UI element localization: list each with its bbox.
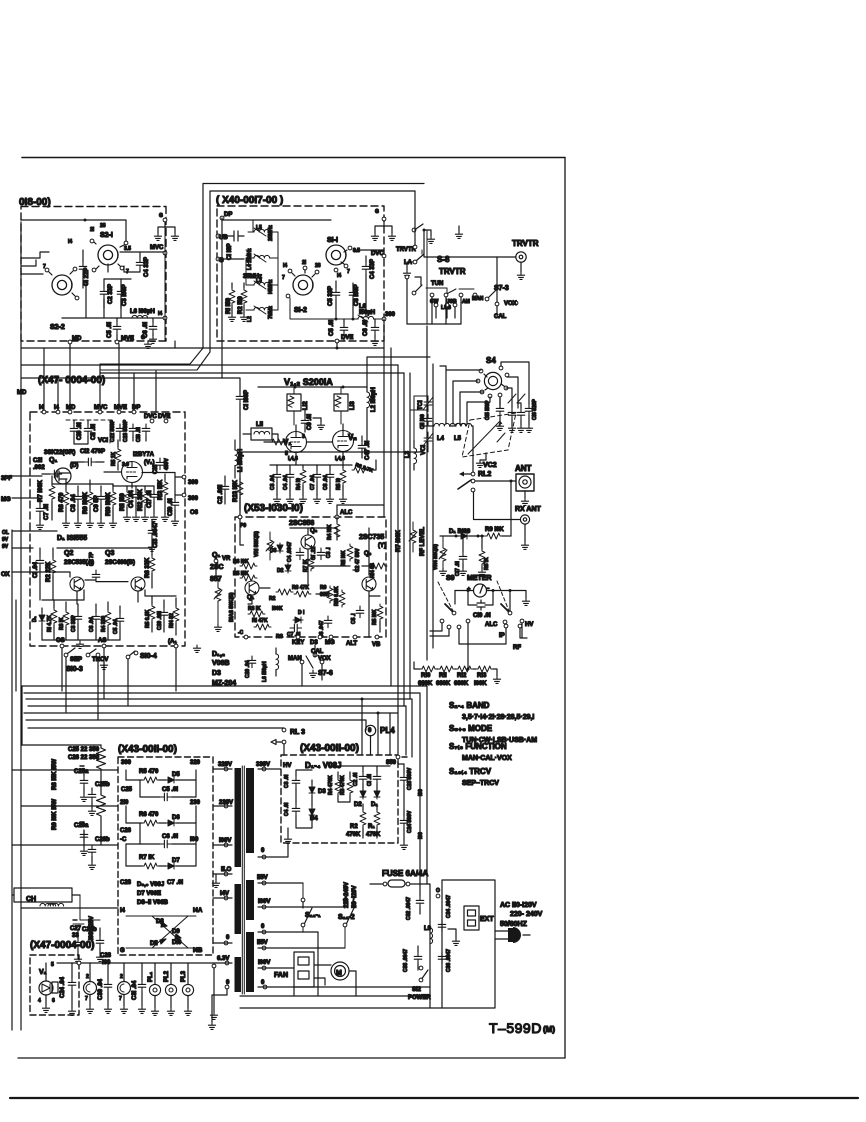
capacitor C7 .01 <box>36 504 44 516</box>
svg-text:SEP: SEP <box>70 657 82 663</box>
svg-text:CI7 .0I: CI7 .0I <box>147 490 153 508</box>
svg-text:D4: D4 <box>310 816 318 822</box>
resistor R1 4.7K <box>51 608 57 625</box>
wire mode bus <box>407 279 461 324</box>
wires X53 internal <box>240 517 380 637</box>
wire tank down to relay <box>472 426 473 472</box>
svg-text:C7 .0I: C7 .0I <box>167 880 183 886</box>
capacitor C3 150P <box>117 287 125 299</box>
svg-text:D₁,₂: D₁,₂ <box>212 651 225 658</box>
ground S-8 second pole <box>458 226 460 231</box>
svg-text:L2 I50µH: L2 I50µH <box>371 387 377 412</box>
svg-text:R5 6.8K: R5 6.8K <box>145 609 151 628</box>
capacitor C1 22P <box>79 262 87 274</box>
resistor R8 470 <box>63 490 69 507</box>
svg-text:0: 0 <box>226 935 230 941</box>
svg-text:I00V: I00V <box>258 960 270 966</box>
svg-text:C2I: C2I <box>33 458 43 464</box>
svg-text:TRVTR: TRVTR <box>439 267 466 276</box>
svg-text:C7 .04: C7 .04 <box>310 475 316 490</box>
wire DP rail <box>222 218 331 378</box>
svg-text:C5 .0I: C5 .0I <box>162 787 178 793</box>
tap 0 line <box>212 964 216 968</box>
svg-text:2I: 2I <box>90 227 95 233</box>
wire G branches <box>158 222 175 233</box>
svg-text:-C: -C <box>238 630 244 636</box>
resistor R9 100K <box>87 490 93 507</box>
svg-text:R8 470: R8 470 <box>59 492 65 512</box>
svg-text:MG: MG <box>1 497 11 503</box>
svg-text:2SC460(B): 2SC460(B) <box>105 560 135 566</box>
svg-text:D2: D2 <box>277 568 284 574</box>
svg-text:C36 .0047: C36 .0047 <box>446 949 452 972</box>
bus drops to psu box <box>362 699 390 755</box>
wire band mid 4 <box>21 378 240 392</box>
fan box <box>294 952 314 987</box>
svg-text:SI-I: SI-I <box>327 237 338 244</box>
svg-text:7: 7 <box>43 264 46 270</box>
svg-text:Q3: Q3 <box>105 550 114 557</box>
wire TC1 riser <box>410 396 428 452</box>
svg-text:0: 0 <box>368 728 372 734</box>
risers long verticals <box>384 319 433 757</box>
svg-text:SI0-3: SI0-3 <box>66 666 83 673</box>
svg-text:I50µH: I50µH <box>359 310 375 316</box>
svg-text:CAL: CAL <box>494 314 507 320</box>
svg-text:R₁: R₁ <box>368 824 375 830</box>
svg-text:2SC: 2SC <box>210 564 224 571</box>
svg-text:C2 47 50V: C2 47 50V <box>355 548 361 572</box>
svg-text:VCI: VCI <box>98 438 108 444</box>
svg-text:R5 470: R5 470 <box>139 769 159 775</box>
svg-text:L5: L5 <box>454 436 462 442</box>
svg-text:L4: L4 <box>437 436 445 442</box>
svg-text:R9 I00K: R9 I00K <box>83 491 89 514</box>
svg-text:PL2: PL2 <box>164 970 170 982</box>
svg-text:PL₁: PL₁ <box>148 971 154 982</box>
svg-text:(X53-I030-I0): (X53-I030-I0) <box>244 503 303 514</box>
svg-text:T–599D: T–599D <box>489 1020 542 1036</box>
svg-text:2I0: 2I0 <box>120 800 129 806</box>
svg-text:(Y): (Y) <box>378 543 386 549</box>
svg-text:C4 33P: C4 33P <box>370 259 376 279</box>
svg-text:L3: L3 <box>256 278 262 284</box>
svg-text:RI 4.7K: RI 4.7K <box>47 615 53 632</box>
svg-text:LI2: LI2 <box>303 401 309 410</box>
svg-text:C5 33P: C5 33P <box>328 286 334 306</box>
capacitor C3 33P <box>74 612 82 624</box>
capacitor C5 33P <box>332 288 340 300</box>
svg-text:C4 .0047: C4 .0047 <box>287 541 293 562</box>
resistor R9 10K15W <box>97 770 106 845</box>
svg-text:C24 .04: C24 .04 <box>60 976 66 998</box>
svg-text:G: G <box>120 948 125 954</box>
svg-text:D7: D7 <box>172 858 180 864</box>
svg-text:TCI: TCI <box>418 400 424 410</box>
page edge line <box>10 1097 858 1099</box>
svg-text:CI2 470P: CI2 470P <box>80 449 105 455</box>
bus wire 4 <box>28 706 406 755</box>
svg-text:D₁ IN60: D₁ IN60 <box>449 529 471 535</box>
resistor R8 15K15W <box>97 745 106 770</box>
svg-text:ALC: ALC <box>340 510 353 516</box>
svg-text:CI8 .0I: CI8 .0I <box>136 427 142 442</box>
svg-text:(M): (M) <box>543 1025 555 1034</box>
capacitor C2 .001 <box>221 482 229 494</box>
screen caps row C3 C4 R4 C7 C8 R5 <box>273 470 281 482</box>
wire jack to switch <box>424 230 516 257</box>
resistor R7 100K <box>49 484 55 501</box>
S9 wiper left <box>452 611 456 615</box>
resistor R23 10K <box>237 480 243 497</box>
svg-text:C8 I50P: C8 I50P <box>354 284 360 306</box>
svg-text:MVC: MVC <box>150 245 164 251</box>
svg-text:C26a: C26a <box>74 823 89 829</box>
svg-text:C47 .0I: C47 .0I <box>365 440 371 460</box>
svg-text:RII I0K: RII I0K <box>341 550 347 566</box>
svg-text:C25: C25 <box>121 787 133 793</box>
svg-text:4: 4 <box>38 998 41 1004</box>
svg-text:V₁,₂ S200IA: V₁,₂ S200IA <box>284 377 333 387</box>
svg-text:.002: .002 <box>33 465 45 471</box>
svg-text:470K: 470K <box>366 832 381 838</box>
svg-text:C22 560P: C22 560P <box>110 419 116 442</box>
svg-text:C5 .I: C5 .I <box>351 613 357 624</box>
capacitor C17 .01 <box>459 552 467 564</box>
svg-text:CI I00P: CI I00P <box>244 390 250 410</box>
ground left of G <box>154 233 161 240</box>
dashed box X40 <box>217 206 384 341</box>
resistor R12 39K <box>142 490 148 507</box>
svg-text:R5 I5K: R5 I5K <box>233 571 249 577</box>
svg-text:I,4,6: I,4,6 <box>335 456 345 462</box>
svg-text:R9 I0K: R9 I0K <box>485 527 504 533</box>
switch S-8 contact <box>412 228 416 232</box>
capacitor C4 33P <box>136 258 144 270</box>
wire S1-2 row <box>290 298 345 319</box>
svg-text:IP: IP <box>499 633 505 639</box>
outer feed wire lower <box>210 191 415 352</box>
svg-text:I4MHz: I4MHz <box>268 279 274 294</box>
ground mains <box>436 894 440 898</box>
svg-text:C25b: C25b <box>95 782 110 788</box>
emitter wires <box>42 590 176 604</box>
svg-text:450V: 450V <box>164 458 170 470</box>
capacitor C9 5P <box>97 492 105 504</box>
svg-text:C25 22 350: C25 22 350 <box>68 747 100 753</box>
svg-text:L5: L5 <box>256 225 262 231</box>
svg-text:0: 0 <box>261 924 265 930</box>
svg-text:C9 .0I: C9 .0I <box>307 414 313 430</box>
resistor R15 1K <box>115 447 121 464</box>
svg-text:TUN: TUN <box>431 281 443 287</box>
svg-text:300: 300 <box>121 760 132 766</box>
svg-text:C4 7P: C4 7P <box>89 551 95 566</box>
suppressor L13 <box>334 394 348 411</box>
capacitor C17 .01 <box>150 490 158 502</box>
capacitor C1 10P <box>218 231 244 241</box>
svg-text:CI .04: CI .04 <box>33 561 39 578</box>
svg-text:R6 I0K: R6 I0K <box>233 559 249 565</box>
svg-text:300: 300 <box>188 496 199 502</box>
svg-text:RF LEVEL: RF LEVEL <box>420 527 426 556</box>
svg-text:CI0 .0I: CI0 .0I <box>77 422 83 440</box>
svg-text:LI3: LI3 <box>350 401 356 410</box>
svg-text:I00: I00 <box>418 832 424 839</box>
bus wire 7 <box>28 727 284 729</box>
svg-text:MVE: MVE <box>114 405 127 411</box>
svg-text:28: 28 <box>100 223 106 229</box>
svg-text:AM: AM <box>462 299 470 305</box>
capacitor C5 .04 <box>116 614 124 626</box>
bottom rail wires <box>240 932 442 1008</box>
svg-text:R4 I0: R4 I0 <box>296 478 302 490</box>
svg-text:C20 .04: C20 .04 <box>245 660 251 678</box>
ground A1 <box>193 645 200 652</box>
svg-text:DP: DP <box>224 212 232 218</box>
svg-text:6: 6 <box>52 998 55 1004</box>
svg-text:2: 2 <box>86 974 89 980</box>
svg-text:28: 28 <box>315 263 321 269</box>
svg-text:3,5·7·I4·2I·28·28,5·29,I: 3,5·7·I4·2I·28·28,5·29,I <box>462 714 534 721</box>
variable cap VC2 <box>462 413 516 457</box>
pot RF LEVEL <box>410 528 416 545</box>
svg-text:S2-2: S2-2 <box>50 324 65 331</box>
trimmer caps C10 C11 <box>70 424 78 436</box>
resistor R10 100K <box>110 490 116 507</box>
svg-text:OS: OS <box>56 638 65 644</box>
svg-text:C4 .0I: C4 .0I <box>284 802 290 816</box>
ground G2 <box>388 233 395 240</box>
svg-text:L9: L9 <box>424 926 432 932</box>
wire band mid 2 <box>21 364 398 366</box>
svg-text:C28: C28 <box>100 953 112 959</box>
svg-text:C27: C27 <box>70 926 82 932</box>
svg-text:RX ANT: RX ANT <box>515 506 542 513</box>
trimmer VC1 <box>423 432 433 448</box>
svg-text:R2 I50: R2 I50 <box>238 296 244 314</box>
svg-text:MD: MD <box>72 336 82 342</box>
svg-text:D3: D3 <box>310 640 318 646</box>
bus wire 2 <box>24 693 420 890</box>
svg-text:I,4,6: I,4,6 <box>288 456 298 462</box>
svg-text:VR4 I0K(B): VR4 I0K(B) <box>433 544 439 570</box>
svg-text:Q₂: Q₂ <box>310 528 318 534</box>
wire band mid 3 <box>100 372 404 374</box>
svg-text:S4: S4 <box>486 356 496 365</box>
svg-text:I4B: I4B <box>193 948 203 954</box>
svg-text:RI2 39K: RI2 39K <box>138 488 144 511</box>
svg-text:RL 3: RL 3 <box>290 729 305 736</box>
capacitor C4 33P <box>362 262 370 274</box>
svg-text:VC2: VC2 <box>483 462 497 469</box>
svg-text:Q₁: Q₁ <box>49 457 57 464</box>
lamp dial a <box>84 982 97 995</box>
S4 right wires <box>500 362 529 408</box>
svg-text:R5 1K: R5 1K <box>111 451 117 466</box>
svg-text:L6 I50µH: L6 I50µH <box>262 661 268 682</box>
svg-text:C6 .0I: C6 .0I <box>363 320 369 336</box>
svg-text:D2: D2 <box>354 802 362 808</box>
svg-text:RI3 I5K: RI3 I5K <box>158 479 164 500</box>
S9 dashed fan <box>438 581 509 611</box>
svg-text:D3: D3 <box>212 670 221 677</box>
svg-text:I00V: I00V <box>258 899 270 905</box>
svg-text:G: G <box>141 335 145 341</box>
resistor row R10-R13 680K <box>420 666 437 672</box>
svg-text:R8 I5K I5W: R8 I5K I5W <box>52 759 58 790</box>
svg-text:I00: I00 <box>418 789 424 796</box>
svg-text:D5: D5 <box>172 772 180 778</box>
wire relay to ANT <box>475 480 516 482</box>
svg-text:2: 2 <box>120 974 123 980</box>
rotary switch S1-2 <box>293 275 313 295</box>
svg-text:VR: VR <box>222 556 231 562</box>
riser to X53 <box>239 414 241 516</box>
svg-text:9V: 9V <box>2 537 9 543</box>
dashed box (018-00) <box>21 207 166 342</box>
resistor R5 6.8K <box>149 604 155 621</box>
svg-text:L4 2IMHz: L4 2IMHz <box>247 248 253 270</box>
svg-text:RI4 68: RI4 68 <box>370 563 376 578</box>
dashed box X53 <box>235 517 386 637</box>
resistor R2 150 <box>241 288 247 305</box>
wire jog diagonal b <box>100 352 210 370</box>
svg-text:S9: S9 <box>446 575 455 582</box>
svg-text:850: 850 <box>386 760 397 766</box>
svg-text:VCI: VCI <box>421 445 427 455</box>
wire L2 plate feed <box>367 357 430 387</box>
meter shunt loop <box>468 591 493 611</box>
resistor R1 150 <box>229 288 235 305</box>
wire right riser <box>422 230 427 324</box>
svg-text:CII I00: CII I00 <box>420 414 426 429</box>
svg-text:(X43-00II-00): (X43-00II-00) <box>118 744 177 755</box>
ground S-8 <box>424 230 431 236</box>
ground G1 <box>371 233 378 240</box>
svg-text:680K: 680K <box>454 681 469 687</box>
svg-text:I00: I00 <box>190 837 199 843</box>
sheet border bottom <box>18 1057 565 1059</box>
meter M <box>474 584 487 597</box>
svg-text:3.5: 3.5 <box>124 246 131 252</box>
capacitor C4 7P <box>92 570 100 582</box>
grid row wire <box>270 464 343 466</box>
svg-text:LA: LA <box>404 260 413 266</box>
svg-text:R7 I00K: R7 I00K <box>396 529 402 552</box>
svg-text:S2-I: S2-I <box>100 232 113 239</box>
pot VR1 50K <box>267 538 273 555</box>
svg-text:BIAS 50K(B): BIAS 50K(B) <box>229 592 235 622</box>
svg-text:2SC735: 2SC735 <box>359 534 384 541</box>
diode D1 <box>39 613 45 623</box>
svg-text:SEP–TRCV: SEP–TRCV <box>462 780 499 787</box>
vertical node wire <box>164 222 166 341</box>
svg-text:220- 240V: 220- 240V <box>510 911 543 918</box>
svg-text:MVE: MVE <box>121 336 134 342</box>
svg-text:VOX: VOX <box>504 301 517 307</box>
svg-text:C9 5P: C9 5P <box>94 495 100 512</box>
capacitor C6 .01 <box>149 322 157 334</box>
svg-text:CI7 .0I: CI7 .0I <box>455 561 461 576</box>
resistor R11 150 <box>124 490 130 507</box>
coil L4 21MHz <box>254 255 270 258</box>
svg-text:I4: I4 <box>158 311 162 317</box>
svg-text:3SK22(GR): 3SK22(GR) <box>44 450 75 456</box>
capacitor C20 .04 <box>248 656 256 668</box>
wire band mid 1 <box>21 343 337 348</box>
svg-text:I4: I4 <box>68 239 72 245</box>
svg-text:C8 .04: C8 .04 <box>71 494 77 512</box>
svg-text:300: 300 <box>188 480 199 486</box>
svg-text:I4: I4 <box>283 263 287 269</box>
svg-text:D₁ ISI555: D₁ ISI555 <box>57 535 87 542</box>
capacitor C8 150P <box>349 288 357 300</box>
svg-text:2SC856: 2SC856 <box>289 520 314 527</box>
tank caps row <box>508 408 516 420</box>
rotary switch S2-2 <box>52 275 72 295</box>
capacitor C18 <box>156 458 164 470</box>
capacitor C1 .04 <box>36 556 44 568</box>
svg-text:R3 IK: R3 IK <box>59 617 65 630</box>
choke L2 150uH <box>367 392 370 408</box>
svg-text:C6 .04: C6 .04 <box>89 617 95 632</box>
svg-text:I4V: I4V <box>220 891 229 897</box>
connector EXT <box>464 906 479 930</box>
svg-text:MAN·CAL·VOX: MAN·CAL·VOX <box>462 755 512 762</box>
svg-text:C23 500V: C23 500V <box>407 767 413 790</box>
left riser bundle <box>12 222 21 1030</box>
sheet border right <box>564 158 566 1059</box>
svg-text:II5V: II5V <box>257 875 268 881</box>
svg-text:SI-2: SI-2 <box>294 307 307 314</box>
svg-text:S₇₍₆ FUNCTION: S₇₍₆ FUNCTION <box>449 742 507 751</box>
svg-text:(X43-00II-00): (X43-00II-00) <box>300 743 359 754</box>
outer feed wire upper <box>203 184 424 349</box>
pot VR5 BIAS 50K <box>215 586 221 603</box>
svg-text:50/60HZ: 50/60HZ <box>500 921 528 928</box>
svg-text:MAN: MAN <box>288 656 302 662</box>
resistor R2 22K <box>50 558 56 575</box>
coil L3 14MHz <box>254 282 270 285</box>
svg-text:CI3 .0047: CI3 .0047 <box>153 521 159 548</box>
svg-text:RF: RF <box>513 645 521 651</box>
transformer core bars <box>235 768 242 867</box>
diode D2 <box>285 563 291 573</box>
sheet border top <box>22 157 565 159</box>
svg-text:II0~I20V: II0~I20V <box>352 885 358 908</box>
transformer laminations <box>242 766 244 994</box>
svg-text:I4A: I4A <box>193 908 203 914</box>
svg-text:C4 .04: C4 .04 <box>283 475 289 490</box>
svg-text:C26 22 350: C26 22 350 <box>68 755 100 761</box>
svg-text:320: 320 <box>190 760 201 766</box>
svg-text:C5 .0I: C5 .0I <box>107 322 113 338</box>
svg-text:VRI 50K(B): VRI 50K(B) <box>254 531 260 557</box>
wire V1 cathode row <box>52 473 175 493</box>
wires S11 <box>303 883 345 948</box>
svg-text:-C: -C <box>120 837 127 843</box>
svg-text:C30 .04: C30 .04 <box>98 978 104 1000</box>
svg-text:5: 5 <box>51 962 54 968</box>
svg-text:R9 I0K I5W: R9 I0K I5W <box>52 799 58 830</box>
svg-text:MD: MD <box>17 390 27 396</box>
choke L6 150uH <box>276 654 279 670</box>
svg-text:S7-6: S7-6 <box>318 670 333 677</box>
wire RX to relay <box>474 492 521 520</box>
mode contacts CW LSB USB AM MAN <box>430 293 434 297</box>
svg-text:EXT: EXT <box>480 916 494 923</box>
